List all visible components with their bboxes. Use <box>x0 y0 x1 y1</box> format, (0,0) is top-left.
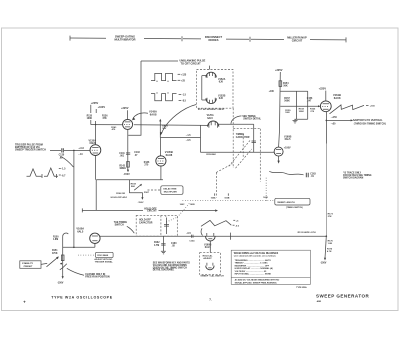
svg-text:-+50: -+50 <box>331 123 336 125</box>
wire dotted switch drop <box>265 178 267 202</box>
waveform gate square 1 <box>151 73 177 80</box>
tube V145A <box>123 119 133 129</box>
node tap gate w arrow <box>159 121 161 138</box>
svg-text:R146: R146 <box>144 161 150 164</box>
svg-text:6J6: 6J6 <box>219 81 224 84</box>
wire grid return line right w arrow <box>159 210 216 212</box>
svg-text:-150V: -150V <box>138 202 144 204</box>
tube V160A <box>90 233 100 243</box>
svg-text:6AL5: 6AL5 <box>285 138 292 141</box>
wire bracket segment 2 <box>144 38 181 40</box>
svg-text:-150V: -150V <box>320 262 327 265</box>
wire dotted diagonal links <box>166 202 190 222</box>
wire cathode down <box>127 129 129 171</box>
svg-text:.001: .001 <box>120 155 125 157</box>
wire timing dashed right edge <box>259 129 261 182</box>
switch contact ticks <box>215 193 229 195</box>
capacitor rail marks <box>192 235 193 238</box>
svg-text:INPUT SIGNAL .................: INPUT SIGNAL .......................... … <box>235 273 272 276</box>
node junction <box>326 235 328 237</box>
wire cathode long vertical <box>326 112 328 144</box>
svg-text:FREE-RUN POSITION: FREE-RUN POSITION <box>85 276 110 279</box>
wire cathode down <box>95 155 97 179</box>
wire holdoff tap from cathode rail <box>130 180 143 198</box>
capacitor marks on drop <box>252 141 257 142</box>
svg-text:EXT. INT-INTENSITY INPUT: EXT. INT-INTENSITY INPUT <box>198 109 225 111</box>
svg-text:4.7K: 4.7K <box>327 250 332 253</box>
box amplitude cal dashed <box>200 253 221 275</box>
ground arrow <box>278 156 280 161</box>
wire cathode down <box>160 166 162 180</box>
wire timing dashed mid leg <box>242 134 244 157</box>
wire unblanking out <box>141 60 178 62</box>
wire bracket segment 3 <box>183 38 201 40</box>
wire leader curve from waveform to input <box>61 156 74 167</box>
value -1.5 <box>179 94 182 96</box>
value -10 <box>178 79 181 81</box>
svg-text:HOLD-OFF: HOLD-OFF <box>139 220 151 222</box>
tube V152A diode arc <box>206 72 216 77</box>
svg-text:R151: R151 <box>52 250 58 252</box>
wire to grid <box>64 149 90 151</box>
wire timing dashed diagonal 2 <box>229 140 250 166</box>
svg-text:CIRCUIT: CIRCUIT <box>147 210 157 213</box>
value +25 <box>178 73 181 75</box>
wire rail to pickoff <box>200 151 274 153</box>
svg-text:+225V: +225V <box>121 106 129 110</box>
wire grid return line <box>82 208 143 212</box>
svg-text:HORIZ DISPLAY ................: HORIZ DISPLAY ................ NORMAL (A… <box>235 267 273 270</box>
box holdoff capacitor dashed <box>136 215 177 236</box>
wire wavy leader <box>127 226 135 233</box>
capacitor C163 <box>306 173 308 178</box>
svg-text:10M: 10M <box>285 112 289 114</box>
wire grid hook <box>63 233 69 237</box>
wire dashed leader <box>148 189 161 191</box>
wire timing dashed top edge <box>233 128 260 130</box>
wire feedback branch <box>280 90 307 92</box>
box stability preset <box>20 261 41 269</box>
value label peak <box>233 219 235 221</box>
switch free-run <box>60 263 62 265</box>
wire plate drop left <box>200 126 202 153</box>
svg-text:SIGNAL APPLIED. SWEEP FREE-RUN: SIGNAL APPLIED. SWEEP FREE-RUNNING. <box>235 281 278 284</box>
svg-text:SWEEP LENGTH: SWEEP LENGTH <box>277 202 295 204</box>
ground <box>161 251 166 254</box>
potentiometer arrow R166 <box>134 185 140 190</box>
svg-text:STABILITY: STABILITY <box>22 262 34 265</box>
svg-text:56K: 56K <box>283 85 288 87</box>
waveform sawtooth out <box>330 105 365 114</box>
svg-text:+100V: +100V <box>284 147 291 149</box>
wire rail B <box>99 235 326 237</box>
svg-text:VOLTS/DIV ....................: VOLTS/DIV ..............................… <box>235 271 268 273</box>
capacitor C130 <box>62 148 64 152</box>
svg-text:PRESET: PRESET <box>24 266 33 268</box>
wire trigger input <box>50 149 61 151</box>
svg-text:TRIGGER SIGNAL: TRIGGER SIGNAL <box>95 260 114 263</box>
capacitor C160 <box>161 244 165 245</box>
bracket end tick <box>345 37 347 42</box>
svg-text:CIRCUIT: CIRCUIT <box>292 38 303 42</box>
svg-text:TRIGGERING ...................: TRIGGERING .............................… <box>235 259 272 262</box>
svg-text:R154: R154 <box>283 82 289 85</box>
svg-text:+100: +100 <box>269 91 275 93</box>
svg-text:R161 BIAS: R161 BIAS <box>97 254 108 257</box>
svg-text:* B TRACE ONLY: * B TRACE ONLY <box>343 171 362 174</box>
value label -1.5 <box>59 168 61 170</box>
tube V160 pickoff diode <box>274 147 283 156</box>
svg-text:6J6: 6J6 <box>219 97 224 100</box>
svg-text:56K: 56K <box>212 154 216 156</box>
svg-text:SWEEP / CAL SWITCH: SWEEP / CAL SWITCH <box>200 275 224 278</box>
wire grid line with arrow <box>280 105 318 107</box>
wire leader arrow to tube <box>133 113 148 119</box>
svg-text:R143: R143 <box>119 165 125 168</box>
wire timing dashed diagonal 3 <box>236 149 252 168</box>
svg-text:160E: 160E <box>263 197 268 199</box>
tube V135A <box>90 145 101 156</box>
resistor R154 <box>279 81 282 87</box>
potentiometer arrow R152 <box>47 258 58 267</box>
svg-text:CAPACITOR: CAPACITOR <box>236 136 250 139</box>
svg-text:MULTIVIBRATOR: MULTIVIBRATOR <box>114 37 135 41</box>
wire timing dashed drop <box>215 173 217 198</box>
wire ground leg <box>162 236 164 251</box>
svg-text:+225V: +225V <box>91 101 99 105</box>
svg-text:--0.5: --0.5 <box>186 233 191 235</box>
svg-text:MAGNIFIER ....................: MAGNIFIER ..............................… <box>235 264 270 267</box>
svg-text:DIODES: DIODES <box>209 38 219 42</box>
svg-text:--1.5: --1.5 <box>186 135 191 137</box>
value label base <box>233 224 235 226</box>
svg-text:(TIMING SWITCH): (TIMING SWITCH) <box>286 207 303 209</box>
svg-text:TIMING: TIMING <box>236 134 244 136</box>
svg-text:27K: 27K <box>328 216 332 218</box>
waveform gate square 2 <box>151 94 177 101</box>
svg-text:7.: 7. <box>209 298 212 302</box>
box bias adjust <box>96 252 114 257</box>
svg-text:47K: 47K <box>102 117 107 120</box>
svg-text:V125A: V125A <box>207 114 214 117</box>
svg-text:560K: 560K <box>284 100 290 102</box>
svg-text:6AL5: 6AL5 <box>77 230 84 233</box>
wire sawtooth output <box>326 119 351 121</box>
svg-text:+100V: +100V <box>98 105 106 109</box>
svg-text:SAWTOOTH TO VERTICAL: SAWTOOTH TO VERTICAL <box>353 119 383 122</box>
wire unblanking vertical <box>128 61 141 135</box>
wire right drop to -150 <box>325 236 326 258</box>
wire gate line <box>160 137 200 139</box>
wire corner drop <box>253 124 255 152</box>
svg-text:--13: --13 <box>78 154 83 156</box>
wire arc box to gate corner <box>161 105 196 134</box>
tube V161B <box>320 101 331 112</box>
wire squiggle to cap <box>269 171 303 175</box>
waveform trigger pulses <box>27 168 59 176</box>
wire dotted switch rail <box>183 200 275 202</box>
wire timing dashed diagonal 1 <box>216 164 232 173</box>
svg-text:1.8M: 1.8M <box>53 239 58 241</box>
node junction <box>326 120 328 122</box>
svg-text:C163: C163 <box>310 173 316 175</box>
svg-text:+150: +150 <box>370 106 376 108</box>
svg-text:56K: 56K <box>131 186 135 188</box>
svg-text:1M: 1M <box>122 193 125 195</box>
box sweep length <box>275 198 310 205</box>
ground <box>293 119 298 123</box>
svg-text:SWEEP GENERATOR: SWEEP GENERATOR <box>316 294 370 299</box>
svg-text:DETAIL DIAGRAMS.: DETAIL DIAGRAMS. <box>153 269 175 272</box>
svg-text:THE TIMING: THE TIMING <box>114 222 127 224</box>
bracket tick <box>249 37 251 42</box>
svg-text:TO CRT CIRCUIT: TO CRT CIRCUIT <box>181 63 202 66</box>
svg-text:ADJUST: ADJUST <box>203 257 212 260</box>
svg-text:6AU8: 6AU8 <box>150 113 157 117</box>
svg-text:160C: 160C <box>180 204 185 206</box>
tube V152B diode arc <box>206 98 216 103</box>
svg-text:TYPE W2A OSCILLOSCOPE: TYPE W2A OSCILLOSCOPE <box>51 295 112 299</box>
svg-text:-+0.6: -+0.6 <box>78 148 84 150</box>
svg-text:HOLD-OFF ADJ: HOLD-OFF ADJ <box>111 196 128 199</box>
node junction <box>95 124 96 125</box>
wire plate up <box>95 121 97 145</box>
svg-text:-1.5: -1.5 <box>61 169 66 171</box>
wire bracket segment 5 <box>251 38 284 40</box>
node junction <box>73 150 75 152</box>
svg-text:R162: R162 <box>154 242 160 244</box>
svg-text:FOR DETAILS SEE TIMING: FOR DETAILS SEE TIMING <box>343 174 372 177</box>
tube cal diode bowl <box>206 266 214 270</box>
svg-text:C154: C154 <box>189 239 195 242</box>
svg-text:6AL5: 6AL5 <box>207 117 213 120</box>
bracket tick <box>181 36 183 41</box>
wire stub below cathode rail <box>95 180 97 211</box>
svg-text:TYPE W2A: TYPE W2A <box>296 286 307 289</box>
svg-text:+225V: +225V <box>319 87 327 91</box>
wire plate rail right <box>134 124 208 127</box>
svg-text:100K: 100K <box>87 118 93 120</box>
svg-text:C141: C141 <box>119 152 125 155</box>
svg-text:160B: 160B <box>224 197 229 199</box>
capacitor holdoff bank <box>164 218 169 235</box>
svg-text:--0.5: --0.5 <box>186 140 191 142</box>
wire leader <box>41 263 47 264</box>
wire leader to note <box>67 268 84 275</box>
bracket start tick <box>69 36 71 41</box>
svg-text:+225V: +225V <box>275 68 283 72</box>
box sweep amplitude <box>161 186 183 195</box>
svg-text:were obtained with controls se: were obtained with controls set as follo… <box>234 255 277 258</box>
svg-text:R167: R167 <box>144 192 150 194</box>
svg-text:160A: 160A <box>211 196 216 199</box>
svg-text:1.8K: 1.8K <box>328 243 333 245</box>
tube V125A diode arc <box>208 121 219 127</box>
ground -150V arrow <box>127 170 129 173</box>
wire bracket segment 4 <box>226 38 249 40</box>
waveform sawtooth lower <box>201 220 231 226</box>
value label -6.7 <box>59 174 61 176</box>
svg-text:DELAY-TIME: DELAY-TIME <box>163 187 177 190</box>
wire cathode rail A <box>63 244 95 248</box>
svg-text:SWITCH: SWITCH <box>115 225 124 227</box>
tube V160B diode bowl <box>206 236 216 241</box>
svg-text:SWITCH DIAGRAM: SWITCH DIAGRAM <box>343 177 363 180</box>
wire cathode rail <box>96 179 163 181</box>
svg-text:C160: C160 <box>171 243 177 245</box>
svg-text:-6.7: -6.7 <box>61 175 66 177</box>
box disconnect diodes dashed <box>197 70 234 109</box>
wire leader arc to note <box>231 116 242 124</box>
svg-text:C130: C130 <box>59 155 65 157</box>
wire diode to corner <box>219 123 254 125</box>
svg-text:160D: 160D <box>190 204 195 206</box>
svg-text:470K: 470K <box>52 252 58 255</box>
svg-text:MULTIPLIER: MULTIPLIER <box>164 191 177 193</box>
tube V145B <box>156 156 166 166</box>
wire internal plate bus <box>202 76 207 100</box>
wire label to box <box>209 66 211 70</box>
wire bracket segment 6 <box>310 39 346 41</box>
svg-text:6AU8: 6AU8 <box>334 96 341 100</box>
svg-text:SEE TIMING: SEE TIMING <box>242 116 255 118</box>
svg-text:TIME/DIV .....................: TIME/DIV ........................... 1 m… <box>235 263 269 265</box>
wire bracket segment 1 <box>70 37 106 39</box>
svg-text:SWEEP TRIGGER SWITCH: SWEEP TRIGGER SWITCH <box>15 148 46 151</box>
svg-text:(THROUGH TIMING SWITCH): (THROUGH TIMING SWITCH) <box>354 123 386 125</box>
svg-text:R150: R150 <box>53 237 59 239</box>
svg-text:6AU8: 6AU8 <box>166 153 173 157</box>
svg-text:R174 GATE LGTH: R174 GATE LGTH <box>298 231 316 234</box>
svg-text:CAPACITOR: CAPACITOR <box>139 221 153 224</box>
box voltage conditions <box>231 250 310 284</box>
svg-text:-150V: -150V <box>57 281 64 284</box>
svg-text:WAVEFORMS and VOLTAGE READINGS: WAVEFORMS and VOLTAGE READINGS <box>234 252 279 255</box>
wire long vertical from trigger node <box>73 150 75 247</box>
svg-text:4.7M: 4.7M <box>154 244 159 247</box>
wire stub to cal box <box>209 241 211 253</box>
node junction <box>73 247 75 249</box>
svg-text:-150V: -150V <box>123 173 130 176</box>
wire timing dashed left edge <box>232 108 234 168</box>
wire leader saw to rail <box>201 228 202 235</box>
svg-text:1MEG: 1MEG <box>119 168 126 170</box>
wire plate rail <box>91 124 123 126</box>
svg-text:SWITCH DETAIL: SWITCH DETAIL <box>243 118 261 121</box>
wire grid drop <box>160 138 162 156</box>
node junction tick <box>229 233 231 240</box>
svg-text:AC AND DC VOLTAGES MEASURED WI: AC AND DC VOLTAGES MEASURED WITH NO <box>235 279 280 282</box>
wire divider legs <box>295 91 308 119</box>
svg-text:C143: C143 <box>134 151 140 154</box>
svg-text:100K: 100K <box>299 111 305 113</box>
value -8.5 <box>179 100 182 102</box>
svg-text:-+150: -+150 <box>331 117 338 119</box>
wire dotted leader <box>78 254 96 256</box>
wire stability drop <box>62 237 64 277</box>
wire plate supply vertical <box>279 72 281 147</box>
svg-text:+125: +125 <box>181 74 187 76</box>
